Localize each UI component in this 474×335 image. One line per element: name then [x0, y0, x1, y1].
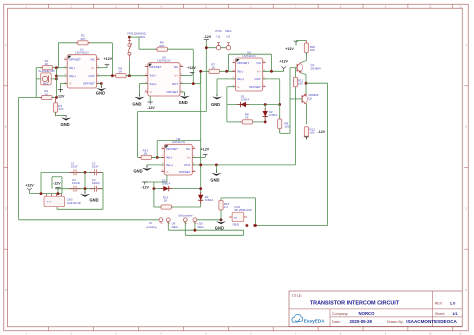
svg-text:V+: V+ [187, 156, 191, 160]
svg-text:100nF: 100nF [72, 181, 80, 185]
wire R11 top [295, 68, 297, 78]
svg-text:100: 100 [309, 131, 314, 135]
svg-text:EasyEDA: EasyEDA [304, 319, 325, 324]
svg-text:OUT: OUT [88, 74, 95, 78]
svg-text:IN(+): IN(+) [69, 74, 76, 78]
wire R8 right [253, 121, 266, 123]
svg-text:IN(+): IN(+) [237, 77, 244, 81]
wire R3 to node [52, 97, 56, 99]
wire mic left pin [36, 78, 41, 80]
wire U8 IN+ left [147, 164, 164, 166]
title block [289, 291, 462, 327]
svg-text:NEG: NEG [197, 225, 204, 229]
svg-text:1K: 1K [45, 62, 49, 66]
svg-text:47K: 47K [80, 37, 85, 41]
junction SW bottom node [128, 74, 131, 77]
junction loop dot2 [253, 224, 256, 227]
wire U6 IN+ drop [216, 79, 218, 96]
svg-text:C: C [5, 207, 7, 210]
power flag +12V U5 [190, 72, 195, 75]
junction caps mid [84, 187, 87, 190]
wire R11 bottom [295, 87, 297, 99]
wire R2 feedback top right [89, 42, 113, 44]
wire R4 to GND [55, 112, 57, 115]
wire U8 V- stub [166, 175, 168, 182]
wire fb U6 right drop [271, 54, 273, 71]
junction D3 left [153, 187, 156, 190]
svg-text:-12V: -12V [318, 130, 326, 134]
wire fb U5 right drop [192, 49, 194, 83]
wire R9 bend [280, 132, 290, 134]
transistor Q1 [297, 62, 302, 73]
pin U10 [193, 218, 197, 224]
resistor R1 [41, 66, 55, 70]
wire OUT gnd stub [215, 165, 217, 172]
svg-text:Q2: Q2 [308, 96, 312, 100]
svg-text:IN(-): IN(-) [237, 70, 243, 74]
svg-text:OFFSET: OFFSET [69, 57, 81, 61]
junction R15 bottom node [220, 218, 223, 221]
wire SW top right [129, 36, 139, 38]
transistor Q2 [302, 94, 307, 105]
ground U8 left [142, 165, 152, 171]
power flag -12V in [55, 188, 60, 191]
wire U1 V- left [60, 83, 67, 85]
power flag -12V U5 [148, 102, 153, 105]
wire U6 V- drop [226, 87, 228, 122]
wire CN2 box right [255, 198, 257, 226]
wire U8 OUT rail [192, 164, 295, 166]
wire U10 right [197, 219, 221, 221]
capacitor C1 [69, 169, 81, 175]
diode D2 [263, 108, 268, 120]
svg-text:LM741CN: LM741CN [243, 54, 256, 58]
junction D1 node [278, 103, 281, 106]
svg-text:C: C [465, 207, 467, 210]
wire feedback left drop [57, 43, 59, 68]
wire inner loop left [51, 177, 53, 189]
wire feedback right drop [111, 43, 113, 76]
svg-text:MK1: MK1 [43, 82, 49, 85]
junction mic right [55, 78, 58, 81]
wire R10 top bend [296, 40, 306, 42]
wire R1 to IN- [53, 67, 67, 69]
ground caps [80, 191, 90, 197]
wire U5 gnd stub [180, 91, 185, 93]
svg-text:V+: V+ [91, 66, 95, 70]
op-amp U5 [145, 55, 183, 96]
wire U8p stem [184, 222, 186, 235]
svg-text:W-2024R-02P: W-2024R-02P [39, 69, 56, 73]
wire -12V to R14 drop [137, 112, 139, 158]
wire -12V drop [205, 42, 207, 111]
wire U5 V+ stub [180, 74, 192, 76]
svg-text:IN(-): IN(-) [150, 74, 156, 78]
wire R6 left [139, 48, 157, 50]
svg-text:GND: GND [179, 100, 188, 105]
svg-text:OFFSET: OFFSET [150, 65, 162, 69]
resistor R3 [40, 95, 54, 99]
junction fb-V+ [270, 70, 273, 73]
resistor R8 [240, 120, 254, 124]
wire Q2 base [290, 98, 302, 100]
wire mic top rail [36, 67, 42, 69]
svg-text:1N914: 1N914 [162, 181, 171, 185]
junction R1 node [55, 66, 58, 69]
microphone MK1 [41, 73, 52, 85]
resistor R4 [54, 99, 58, 117]
wire R10 to Q1 [305, 53, 307, 61]
svg-text:ISAACMONTESDEOCA: ISAACMONTESDEOCA [406, 319, 457, 324]
wire out riser U5-R7 [200, 71, 202, 83]
junction R7 right [225, 70, 228, 73]
resistor R15 [219, 200, 223, 210]
power flag +12V U1 [105, 65, 110, 68]
svg-text:LM741CN: LM741CN [75, 51, 88, 55]
svg-text:1K: 1K [211, 66, 215, 70]
wire R11 long drop [295, 99, 297, 165]
svg-text:LM741CN: LM741CN [157, 59, 170, 63]
svg-text:IN(+): IN(+) [150, 82, 157, 86]
wire U5 out [180, 83, 201, 85]
wire R4 gnd bend [56, 115, 67, 117]
wire cap box left [40, 172, 42, 193]
wire D2 drop [264, 105, 266, 122]
junction R14-fb [156, 156, 159, 159]
wire D1 row [227, 104, 280, 106]
resistor R6 [155, 47, 169, 51]
junction rail C loop [246, 224, 249, 227]
wire mic node column [55, 68, 57, 98]
svg-text:10uF: 10uF [92, 165, 99, 169]
junction conn left [40, 192, 43, 195]
svg-text:VH3.96-4P: VH3.96-4P [67, 201, 81, 205]
switch SW1 [128, 37, 132, 60]
pin U9 [166, 218, 170, 224]
wire U8 IN+ drop [146, 165, 148, 167]
svg-text:OUT: OUT [255, 77, 262, 81]
wire mic right pin [51, 78, 56, 80]
svg-text:Sheet:: Sheet: [435, 312, 445, 316]
capacitor C4 [90, 186, 102, 192]
wire R13 left [154, 206, 161, 208]
wire U6 V+ right [263, 70, 284, 72]
svg-text:GND: GND [211, 102, 220, 107]
wire Q1 base [290, 67, 297, 69]
wire out to loop [306, 82, 328, 84]
svg-text:V+: V+ [174, 74, 178, 78]
resistor R5 [114, 74, 128, 78]
power flag -12V R12 inv [304, 137, 309, 140]
svg-text:NEG: NEG [225, 29, 232, 33]
resistor R12 [304, 127, 308, 137]
svg-text:1/1: 1/1 [452, 311, 458, 316]
wire long riser [200, 73, 202, 208]
wire R13 right [171, 206, 200, 208]
wire R15 bottom [220, 210, 222, 220]
op-amp U6 [232, 51, 265, 91]
wire fb U6 top [229, 53, 272, 55]
svg-text:OUT: OUT [172, 82, 179, 86]
wire D3 riser [153, 182, 155, 189]
wire Q1 em [302, 73, 306, 74]
wire rail C [185, 234, 243, 236]
svg-text:+12V: +12V [201, 147, 210, 151]
junction U5 out [192, 82, 195, 85]
svg-text:+12V: +12V [104, 57, 113, 61]
wire cap box top [41, 171, 103, 173]
svg-text:NEG: NEG [172, 225, 179, 229]
svg-text:100: 100 [310, 48, 315, 52]
wire speaker loop bottom [256, 225, 328, 227]
wire R7 right [219, 70, 235, 72]
wire cap box right [102, 172, 104, 209]
connector CN2 [229, 212, 247, 222]
wire U8 V- left [145, 181, 167, 183]
junction OUT-riser [199, 164, 202, 167]
wire R9 top [279, 105, 281, 120]
svg-text:2020-05-29: 2020-05-29 [350, 319, 373, 324]
svg-text:POS: POS [215, 29, 221, 33]
svg-text:SW1: SW1 [139, 35, 146, 39]
svg-text:GND: GND [134, 169, 143, 174]
wire Q2 col drop [305, 106, 307, 124]
junction R3 node [55, 96, 58, 99]
svg-text:1K: 1K [164, 199, 168, 203]
svg-text:100: 100 [298, 82, 303, 86]
svg-text:REV:: REV: [435, 302, 443, 306]
wire cap row2 [55, 188, 103, 190]
wire U5 V- stub [149, 96, 151, 102]
svg-text:Company:: Company: [332, 312, 348, 316]
wire R2 feedback top [58, 42, 77, 44]
wire R14 right [152, 156, 165, 158]
resistor R2 [76, 41, 90, 45]
power flag +12V Q1 [294, 40, 299, 45]
pin U8p [183, 218, 187, 224]
wire rail B [168, 229, 243, 231]
resistor R13 [159, 205, 173, 209]
wire CN2 box top [221, 197, 256, 199]
junction R7 left [199, 70, 202, 73]
op-amp U1 [64, 47, 99, 88]
svg-text:+12V: +12V [25, 183, 34, 187]
svg-text:GND: GND [96, 91, 105, 96]
svg-text:4.2: 4.2 [224, 205, 229, 209]
wire R6 right [167, 48, 193, 50]
wire emitters [305, 75, 307, 93]
svg-text:-12V: -12V [141, 185, 149, 189]
resistor R9 [278, 115, 282, 133]
connector CN3 [44, 194, 65, 207]
EasyEDA logo [292, 314, 325, 323]
svg-text:NORCO: NORCO [359, 311, 376, 316]
ground U1 [96, 86, 106, 92]
wire left rail drop [18, 98, 20, 220]
wire U1 V+ stub [97, 67, 107, 69]
power flag -12V U1 [58, 90, 63, 93]
wire fb U6 riser [228, 54, 230, 71]
svg-text:IN(+): IN(+) [166, 163, 173, 167]
resistor R11 [293, 77, 297, 87]
wire U1 V- drop [59, 84, 61, 93]
wire R9 bottom [279, 129, 281, 134]
test pin U3 [226, 43, 230, 50]
svg-text:SP-250R-02P: SP-250R-02P [234, 208, 251, 212]
svg-text:GND: GND [215, 226, 224, 231]
wire U5 IN+ drop [138, 84, 140, 96]
wire R8 row left [227, 121, 243, 123]
svg-text:100nF: 100nF [92, 181, 100, 185]
resistor R14 [139, 155, 153, 159]
wire long left rail [19, 97, 37, 99]
power flag +12V in [27, 188, 32, 193]
svg-text:47K: 47K [58, 107, 63, 111]
junction U1 gnd [100, 82, 103, 85]
wire cap box bottom [57, 208, 103, 210]
diode D3 [161, 186, 173, 191]
svg-text:1K: 1K [245, 116, 249, 120]
capacitor C2 [90, 169, 102, 175]
svg-text:1.0: 1.0 [450, 301, 456, 306]
resistor R7 [207, 69, 221, 73]
wire caps mid drop [84, 172, 86, 188]
svg-text:2N3904: 2N3904 [311, 66, 322, 70]
wire U1 gnd drop [100, 84, 102, 88]
wire -12V elbow [138, 111, 207, 113]
wire inner loop top [52, 176, 62, 178]
wire R12 bottom [305, 136, 307, 139]
wire inner loop right [61, 177, 63, 194]
junction D3-D4 [199, 187, 202, 190]
wire U6 IN+ left [217, 78, 235, 80]
svg-text:Date:: Date: [332, 320, 341, 324]
svg-text:-12V: -12V [53, 182, 61, 186]
wire SW feed drop [138, 37, 140, 49]
svg-text:D: D [5, 289, 7, 292]
capacitor C3 [69, 186, 81, 192]
power flag +12V U6 [281, 67, 286, 72]
wire IN+ to node [56, 75, 67, 77]
svg-text:+12V: +12V [279, 59, 288, 63]
pin U7 [159, 218, 163, 224]
test pin U2 [216, 43, 220, 50]
wire U5 gnd drop [184, 92, 186, 95]
wire U6 OUT drop [279, 79, 281, 105]
wire bottom rail [19, 219, 159, 221]
junction OUT-gnd [215, 164, 218, 167]
svg-text:YEUE: YEUE [232, 223, 239, 227]
junction -12V tap [205, 46, 208, 49]
svg-text:10uF: 10uF [71, 165, 78, 169]
ground U6 [212, 94, 222, 100]
svg-text:1N914: 1N914 [269, 113, 278, 117]
wire R5 to U5 [126, 75, 148, 77]
svg-text:V-: V- [69, 82, 72, 86]
ground U5 right [179, 93, 189, 99]
wire U6 V- left [227, 86, 236, 88]
wire D3 row [154, 188, 201, 190]
wire testpin rail [206, 47, 226, 49]
svg-text:GND: GND [90, 198, 99, 203]
svg-text:OFFSET: OFFSET [237, 61, 249, 65]
wire R7 left [201, 70, 209, 72]
svg-text:-12V: -12V [147, 106, 155, 110]
svg-text:LM741CN: LM741CN [172, 140, 185, 144]
svg-text:OFFSET: OFFSET [83, 82, 95, 86]
svg-text:1K: 1K [44, 92, 48, 96]
power flag +12V U8 [203, 154, 208, 157]
wire base column [289, 68, 291, 134]
wire +12V to conn [30, 193, 63, 195]
diode D4 [198, 192, 203, 204]
junction R8-D2 [264, 121, 267, 124]
wire Q2 col [305, 103, 307, 106]
svg-text:Drawn By:: Drawn By: [387, 320, 404, 324]
svg-text:GND: GND [210, 178, 219, 183]
svg-text:-+-+: -+-+ [46, 200, 52, 204]
power flag -12V U8 [142, 182, 147, 185]
wire U1 OUT [97, 75, 116, 77]
svg-text:-12V: -12V [57, 95, 65, 99]
wire rail BC riser [243, 230, 245, 235]
svg-text:1N914: 1N914 [241, 97, 250, 101]
svg-text:GND: GND [132, 101, 141, 106]
wire R15 top [220, 198, 222, 201]
wire gnd drop caps [84, 189, 86, 194]
wire R13 riser [153, 189, 155, 207]
svg-text:+12V: +12V [187, 66, 196, 70]
svg-text:+12V: +12V [285, 47, 294, 51]
svg-text:U8 positive: U8 positive [178, 213, 193, 217]
junction SW top [128, 36, 131, 39]
svg-text:D: D [465, 289, 467, 292]
svg-text:U3: U3 [226, 34, 230, 38]
svg-text:1K: 1K [118, 70, 122, 74]
ground U8 right [211, 170, 221, 176]
wire U6 OUT right [263, 78, 280, 80]
svg-text:TITLE:: TITLE: [292, 294, 303, 298]
svg-text:GND: GND [61, 122, 70, 127]
wire U5 IN+ left [139, 83, 147, 85]
svg-text:OUT: OUT [184, 163, 191, 167]
svg-text:positive_: positive_ [147, 225, 159, 229]
wire Q2 em [305, 93, 308, 95]
ground U5 left [134, 94, 144, 100]
power flag -12V top [204, 40, 209, 43]
svg-text:TRANSISTOR INTERCOM CIRCUIT: TRANSISTOR INTERCOM CIRCUIT [310, 301, 400, 307]
wire R14 left [138, 156, 142, 158]
wire flag to R10 [295, 41, 297, 46]
junction feedback-out [111, 74, 114, 77]
wire R3 left [36, 97, 41, 99]
svg-text:OFFSET: OFFSET [166, 147, 178, 151]
svg-text:1K: 1K [144, 152, 148, 156]
wire -12V stub [57, 190, 59, 193]
svg-text:-12V: -12V [204, 35, 212, 39]
junction CN2 right [254, 224, 257, 227]
svg-text:1N914: 1N914 [205, 198, 214, 202]
resistor R10 [304, 41, 308, 56]
wire speaker loop right [327, 83, 329, 225]
wire U8 V+ right [192, 156, 205, 158]
junction IN+ tap [55, 75, 58, 78]
wire mic left rail [35, 68, 37, 98]
diode D1 [237, 102, 249, 107]
svg-text:U2: U2 [217, 34, 221, 38]
ground R4 [61, 115, 71, 121]
ground R15 [216, 219, 226, 225]
